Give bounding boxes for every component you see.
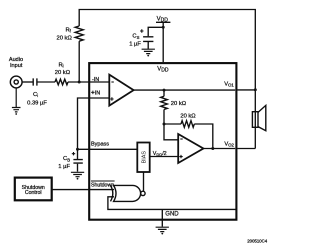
- svg-text:Bypass: Bypass: [91, 142, 109, 148]
- op-amp U1A: [109, 75, 133, 106]
- wire U1B inverting input: [164, 124, 178, 140]
- resistor R_f: [75, 26, 83, 41]
- plus mark (U1B): [179, 155, 182, 158]
- Shutdown Control box: [15, 178, 52, 201]
- wire R1 bottom lead: [163, 110, 165, 125]
- wire R2 right to U1B output: [194, 124, 213, 149]
- wire GND stem: [161, 209, 163, 226]
- wire shutdown control to gate: [52, 189, 114, 191]
- gate G1 body: [114, 185, 141, 201]
- wire BIAS to U1B + input: [150, 156, 179, 158]
- node R1/R2 junction: [163, 123, 166, 126]
- wire Ci to Ri: [37, 81, 55, 83]
- svg-text:200510C4: 200510C4: [247, 239, 267, 244]
- resistor R2 20k: [181, 121, 194, 128]
- node VO1/speaker junction: [254, 88, 257, 91]
- resistor R1 20k: [161, 96, 168, 109]
- svg-text:1 µF: 1 µF: [58, 164, 70, 170]
- plus mark (Cs): [140, 29, 143, 32]
- svg-text:20 kΩ: 20 kΩ: [180, 113, 196, 119]
- svg-text:+IN: +IN: [91, 90, 100, 97]
- audio input connector J1: [10, 76, 22, 88]
- node A (Ri/Rf junction): [78, 81, 81, 84]
- svg-text:CB: CB: [63, 156, 70, 162]
- wire VO2 outside to speaker node: [237, 148, 255, 150]
- plus mark (CB): [72, 152, 75, 155]
- wire feedback top rail: [79, 10, 255, 90]
- svg-text:20 kΩ: 20 kΩ: [55, 70, 71, 76]
- wire Ri to -IN: [68, 81, 109, 83]
- node VDD/CS junction: [162, 26, 165, 29]
- svg-text:-IN: -IN: [92, 77, 99, 83]
- wire Bypass: [78, 148, 138, 150]
- node bypass/CB junction: [76, 148, 79, 151]
- capacitor C_S: [143, 37, 153, 42]
- op-amp U1B: [178, 134, 203, 163]
- wire R2 left lead: [164, 123, 181, 125]
- ground (CB): [71, 172, 84, 176]
- svg-text:Control: Control: [25, 190, 42, 196]
- gate G1 (XNOR) input 2 wire: [108, 197, 236, 210]
- wire feedback left vertical: [78, 41, 80, 82]
- svg-text:VO1: VO1: [224, 82, 234, 88]
- svg-text:1 µF: 1 µF: [129, 41, 141, 47]
- svg-text:20 kΩ: 20 kΩ: [57, 35, 73, 41]
- ground (GND pin): [156, 227, 169, 231]
- IC box U1: [89, 63, 236, 220]
- minus mark (U1A): [111, 81, 113, 83]
- gate G1 output bubble: [141, 191, 145, 195]
- svg-text:Ri: Ri: [58, 62, 63, 68]
- minus mark (U1B): [180, 138, 182, 140]
- svg-text:Input: Input: [10, 63, 23, 69]
- label Shutdown (pin, overline): [91, 180, 115, 182]
- capacitor C_B: [77, 149, 79, 159]
- ground (input jack): [12, 88, 21, 112]
- node R2/VO2 junction: [211, 147, 214, 150]
- svg-text:BIAS: BIAS: [142, 151, 148, 164]
- BIAS block: [137, 143, 149, 173]
- ground (Cs): [142, 49, 155, 53]
- wire VO1 outside to speaker node: [237, 89, 255, 91]
- svg-text:Ci: Ci: [33, 92, 38, 98]
- wire +IN from bypass node: [78, 98, 110, 149]
- plus mark (U1A): [110, 97, 113, 100]
- node VO1/R1 junction: [163, 89, 166, 92]
- svg-text:20 kΩ: 20 kΩ: [171, 101, 187, 107]
- wire jack to Ci: [22, 81, 33, 83]
- gate G1 extra input curve: [111, 185, 113, 201]
- svg-text:VDD: VDD: [157, 66, 169, 73]
- svg-text:VO2: VO2: [224, 141, 234, 147]
- svg-text:VDD/2: VDD/2: [153, 151, 167, 157]
- resistor R_i: [55, 79, 68, 85]
- speaker LS1: [254, 90, 256, 149]
- wire gate output to BIAS: [143, 172, 145, 191]
- svg-text:GND: GND: [165, 212, 179, 218]
- wire to Cs: [148, 27, 163, 36]
- capacitor C_i: [33, 78, 37, 85]
- svg-text:CS: CS: [132, 34, 139, 40]
- svg-text:Rf: Rf: [65, 28, 71, 34]
- wire U1B output / VO2: [203, 148, 235, 150]
- wire U1A output / VO1: [134, 89, 236, 91]
- svg-text:0.39 µF: 0.39 µF: [27, 101, 47, 107]
- wire R1 top lead: [163, 90, 165, 96]
